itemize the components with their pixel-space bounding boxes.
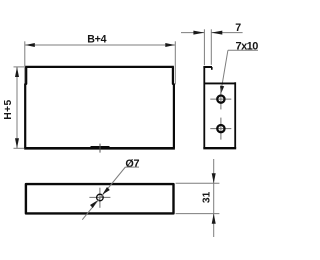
svg-text:Ø7: Ø7 (125, 158, 139, 170)
svg-text:B+4: B+4 (87, 34, 106, 46)
svg-text:31: 31 (202, 191, 213, 203)
svg-text:7: 7 (235, 22, 241, 34)
svg-text:H+5: H+5 (3, 99, 14, 119)
